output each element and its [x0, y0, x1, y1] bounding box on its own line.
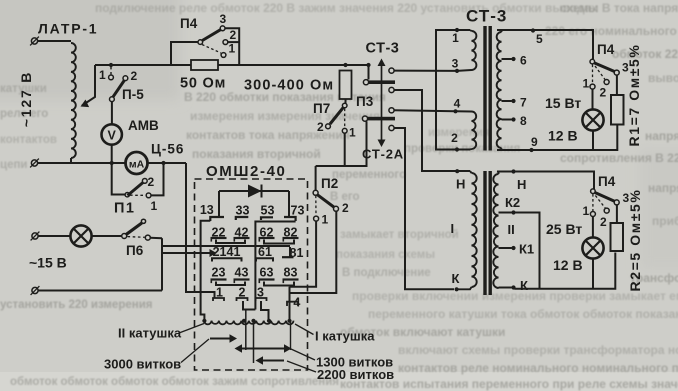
svg-text:7: 7 [520, 96, 527, 110]
node tap 9 [529, 148, 533, 152]
svg-text:12 В: 12 В [548, 128, 578, 144]
relay coil terminal 4 [287, 296, 300, 310]
svg-text:схемы В тока напряжения: схемы В тока напряжения [560, 1, 678, 15]
coil dimension line b [253, 321, 255, 363]
relay coil terminal 3 [256, 286, 267, 302]
svg-text:ОМШ2-40: ОМШ2-40 [206, 163, 286, 180]
wire terminal 2 to coil [243, 301, 255, 350]
svg-text:выводах: выводах [648, 71, 678, 85]
label 1 (tap) [452, 31, 459, 45]
svg-text:V: V [108, 129, 117, 143]
П3 right contact d [389, 125, 394, 130]
wire secondary top rail (tap 5) [497, 30, 593, 59]
label 3 (П4 R2) [623, 191, 630, 205]
label 50 Ом [180, 76, 226, 92]
label 2 (П4 top) [230, 28, 237, 42]
svg-text:3: 3 [452, 57, 459, 71]
label 1300 витков [235, 344, 394, 369]
label 5 (tap) [536, 32, 543, 46]
label СТ-3 (transformer) [466, 7, 507, 26]
tap К bottom [499, 285, 516, 289]
node tap 1 [455, 28, 459, 32]
relay coil terminal 1 [213, 286, 224, 302]
label П3 [356, 94, 374, 109]
wire П3-b down to lower trans H [394, 90, 470, 171]
relay contact 13 [200, 203, 224, 221]
svg-text:П4: П4 [597, 42, 615, 57]
svg-text:2: 2 [600, 86, 607, 100]
node K left [455, 287, 459, 291]
wire П-5 to voltmeter [111, 102, 113, 124]
relay contact 53 [261, 204, 275, 221]
relay contact 43 [234, 266, 250, 284]
wire мА node to relay coil [186, 163, 215, 298]
svg-text:R1=7 Ом±5%: R1=7 Ом±5% [626, 44, 642, 147]
label I (winding) [451, 221, 455, 236]
wire П4 to lamp HL2 [592, 89, 594, 109]
label I катушка [295, 324, 375, 344]
node H right [511, 169, 515, 173]
svg-text:П6: П6 [126, 243, 144, 258]
relay contact 63 [259, 266, 275, 284]
switch П3 bridge bar 1 [363, 80, 395, 85]
svg-text:2: 2 [317, 120, 324, 134]
СТ-3 primary outer loop [436, 30, 470, 150]
label СТ-2А (П3 down position) [362, 147, 404, 162]
wire main top node [95, 64, 369, 66]
svg-text:I катушка: I катушка [315, 329, 375, 344]
svg-text:2141: 2141 [213, 245, 241, 259]
svg-text:СТ-3: СТ-3 [466, 7, 507, 26]
resistor 50 Ом [191, 60, 218, 70]
svg-text:измерения: измерения [428, 127, 490, 139]
relay contact 73 [284, 204, 304, 222]
svg-text:измерения измерения значения: измерения измерения значения [190, 109, 380, 123]
wire terminal 3 to coil [261, 301, 269, 321]
relay bridge 62-82 [264, 240, 294, 244]
svg-text:СТ-3: СТ-3 [366, 41, 400, 57]
wire bottom rail ЛАТР [38, 158, 126, 163]
label 9 (tap) [531, 135, 538, 149]
terminal X1 (~127V top) [30, 37, 39, 46]
resistor R1 [611, 95, 624, 125]
label К (winding I) [452, 271, 460, 286]
svg-text:обмоток обмоток обмоток обмото: обмоток обмоток обмоток обмоток зажим со… [10, 376, 339, 388]
switch П3 bridge bar 2 [362, 116, 395, 121]
tap К1 [499, 246, 516, 250]
tap 6 [502, 57, 516, 61]
node H left [455, 169, 459, 173]
svg-text:23: 23 [212, 266, 226, 280]
svg-text:9: 9 [531, 135, 538, 149]
tap 8 [502, 117, 516, 121]
svg-text:1: 1 [99, 68, 106, 82]
svg-text:50 Ом: 50 Ом [180, 76, 226, 92]
label 1 (П4 top) [229, 42, 236, 56]
wire К2 down [514, 213, 540, 289]
label П7 [313, 101, 330, 116]
svg-text:2: 2 [451, 131, 458, 145]
wire X3 to lamp [38, 235, 71, 237]
svg-text:подключение реле обмоток 220 В: подключение реле обмоток 220 В зажим зна… [95, 1, 598, 15]
svg-text:мА: мА [129, 158, 145, 170]
wire contact 13 to relay coil [201, 221, 211, 320]
svg-text:напряжения: напряжения [645, 129, 678, 143]
label 15 Вт [545, 95, 581, 111]
lower transformer winding II [493, 172, 498, 289]
ЛАТР wiper arrow [81, 65, 96, 107]
label ЛАТР-1 [38, 21, 98, 37]
node мА-П1 junction [161, 161, 165, 165]
svg-text:переменного катушки тока обмот: переменного катушки тока обмоток обмоток… [368, 307, 678, 321]
П3 right contact c [389, 108, 394, 113]
svg-text:прибора: прибора [652, 214, 678, 228]
label 1 (П2) [322, 213, 329, 227]
wire П3-a to tap 3 [394, 70, 457, 72]
label 3 (П4 top) [220, 12, 227, 26]
svg-text:1: 1 [349, 126, 356, 140]
label 7 (tap) [520, 96, 527, 110]
switch П2 [313, 166, 338, 221]
svg-text:1: 1 [322, 213, 329, 227]
wire lamp HL3 to rail [592, 259, 594, 289]
svg-text:2: 2 [148, 175, 155, 189]
label П2 [321, 176, 338, 191]
svg-text:2: 2 [230, 28, 237, 42]
svg-text:2: 2 [600, 215, 607, 229]
svg-text:13: 13 [200, 203, 214, 217]
svg-text:1: 1 [583, 204, 590, 218]
svg-text:2: 2 [342, 201, 349, 215]
label К1 [519, 242, 534, 257]
tap К2 [499, 210, 516, 214]
label Н (winding II) [517, 177, 526, 192]
relay contact 21 41 [212, 245, 242, 262]
svg-text:1: 1 [452, 31, 459, 45]
svg-text:R2=5 Ом±5%: R2=5 Ом±5% [627, 189, 643, 292]
svg-text:К: К [520, 278, 528, 293]
label П-5 [122, 87, 144, 102]
label 3000 витков [104, 334, 237, 371]
svg-text:1: 1 [229, 42, 236, 56]
svg-text:12 В: 12 В [553, 257, 583, 273]
СТ-3 core [485, 26, 490, 151]
svg-text:включают схемы проверки трансф: включают схемы проверки трансформатора н… [398, 343, 678, 357]
label Ц-56 [151, 142, 184, 157]
svg-text:73: 73 [291, 204, 305, 218]
relay contact 82 [283, 226, 299, 242]
wire П6 to relay contact 81 [162, 245, 290, 247]
svg-text:II катушка: II катушка [118, 326, 182, 341]
svg-text:П7: П7 [313, 101, 330, 116]
wire П6 riser [161, 238, 163, 290]
label 1 (П4 R1) [583, 77, 590, 91]
СТ-3 primary winding section 4-2 [456, 111, 477, 149]
switch П1 [112, 163, 164, 198]
node tap 4 [453, 109, 457, 113]
СТ-3 secondary winding [497, 30, 502, 150]
svg-text:обмоток 220: обмоток 220 [612, 47, 678, 61]
wire П4 to lamp HL3 [592, 217, 594, 238]
switch П4 (50 Ом bypass) [171, 26, 239, 65]
relay contact 33 [236, 204, 250, 221]
lamp HL2 (15 Вт 12 В) [582, 109, 603, 130]
label 2200 витков [256, 356, 395, 382]
relay contact 83 [283, 266, 299, 284]
label 2 (П4 R1) [600, 86, 607, 100]
label 2 (П2) [342, 201, 349, 215]
relay box (dashed) [195, 179, 308, 370]
svg-text:П1: П1 [114, 201, 136, 217]
voltmeter АМВ (V) [102, 124, 122, 144]
label СТ-3 (П3 up position) [366, 41, 400, 57]
relay coil winding (wavy) [202, 319, 293, 325]
label 1 (П-5) [99, 68, 106, 82]
coil dimension line c [290, 322, 292, 350]
label 3 (П4 R1) [622, 61, 629, 75]
svg-text:33: 33 [236, 204, 250, 218]
svg-text:300-400 Ом: 300-400 Ом [244, 78, 334, 94]
svg-text:показания схемы: показания схемы [336, 249, 435, 261]
svg-text:ЛАТР-1: ЛАТР-1 [38, 21, 98, 37]
svg-text:6: 6 [520, 54, 527, 68]
svg-text:83: 83 [284, 266, 298, 280]
svg-text:П3: П3 [356, 94, 374, 109]
relay contact 62 [259, 226, 275, 242]
svg-text:установить 220 измерения: установить 220 измерения [0, 299, 152, 311]
label 1 (П4 R2) [583, 204, 590, 218]
svg-text:5: 5 [536, 32, 543, 46]
svg-text:3000 витков: 3000 витков [104, 357, 181, 372]
relay bridge 23-43 [216, 282, 245, 286]
label R2=5 Ом±5% [627, 189, 643, 292]
svg-text:замыкает вторичной: замыкает вторичной [340, 229, 459, 241]
label 2 (tap) [451, 131, 458, 145]
svg-text:К1: К1 [519, 242, 534, 257]
label II (winding) [508, 222, 515, 237]
СТ-3 primary winding section 1-3 [457, 30, 476, 71]
switch П7 [326, 99, 348, 166]
label 25 Вт [546, 221, 582, 237]
П3 right contact a [389, 68, 394, 73]
svg-text:15 Вт: 15 Вт [545, 95, 581, 111]
wire lamp HL2 to rail [592, 131, 594, 150]
wire П2 contact 1 to relay [290, 221, 317, 302]
svg-text:1: 1 [583, 77, 590, 91]
label 6 (tap) [520, 54, 527, 68]
node main-П5 junction [109, 63, 113, 67]
diode VD1 [219, 185, 289, 198]
svg-text:3: 3 [220, 12, 227, 26]
relay contact 23 [211, 266, 227, 284]
label 1 (П1) [151, 199, 158, 213]
svg-text:К2: К2 [505, 195, 520, 210]
svg-text:Н: Н [517, 177, 526, 192]
svg-text:I: I [451, 221, 455, 236]
svg-text:2200 витков: 2200 витков [317, 367, 394, 382]
svg-text:контактов реле номинального но: контактов реле номинального номинального… [398, 361, 678, 375]
svg-text:Ц-56: Ц-56 [151, 142, 184, 157]
terminal X2 (~127V bottom) [30, 159, 39, 168]
svg-text:П-5: П-5 [122, 87, 144, 102]
wire voltmeter to bottom rail [111, 145, 113, 163]
svg-text:контактов: контактов [0, 134, 57, 146]
label Н (winding I) [456, 177, 465, 192]
wire winding II bottom rail [514, 253, 616, 289]
wire П2 contact 2 to relay [290, 211, 337, 293]
П3 right contact b [389, 87, 394, 92]
label 2 (П-5) [131, 69, 138, 83]
label К (winding II) [520, 278, 528, 293]
svg-text:П4: П4 [180, 16, 198, 31]
label 2 (П4 R2) [600, 215, 607, 229]
node tap 3 [455, 69, 459, 73]
terminal X4 (~15V bottom) [31, 286, 40, 295]
svg-text:П2: П2 [321, 176, 338, 191]
label 8 (tap) [520, 114, 527, 128]
wire П3 lower-left node [316, 121, 367, 166]
lamp HL3 (25 Вт 12 В) [582, 237, 603, 258]
label ОМШ2-40 [206, 163, 286, 180]
autotransformer ЛАТР-1 coil [71, 43, 76, 158]
wire П3 top-left to main [366, 63, 370, 80]
label 1 (П7) [349, 126, 356, 140]
label 12 В [548, 128, 578, 144]
label 12 В [553, 257, 583, 273]
lower transformer winding I [457, 171, 477, 289]
tap 7 [502, 99, 516, 103]
svg-text:53: 53 [261, 204, 275, 218]
relay contact 61 [256, 245, 273, 262]
svg-text:1: 1 [151, 199, 158, 213]
lower transformer core [485, 171, 490, 295]
svg-text:61: 61 [258, 245, 272, 259]
wire мА to node [148, 162, 187, 164]
node tap 2 [455, 147, 459, 151]
label П1 [114, 201, 136, 217]
resistor R2 [611, 223, 624, 251]
label 4 (tap) [454, 97, 461, 111]
svg-text:цепи: цепи [0, 159, 27, 171]
svg-text:~127 В: ~127 В [18, 71, 34, 127]
switch П4 (R1 selector) [590, 59, 619, 95]
relay bridge 63-83 [264, 282, 294, 286]
label АМВ [128, 118, 159, 133]
label R1=7 Ом±5% [626, 44, 642, 147]
terminal X3 (~15V top) [31, 232, 40, 241]
label 300-400 Ом [244, 78, 334, 94]
wire П3-c to tap 4 [394, 110, 455, 111]
wire winding II top rail [497, 172, 594, 190]
node main-R junction [343, 63, 347, 67]
label П4 (top) [180, 16, 198, 31]
wire П6 to relay contact 21 [162, 249, 217, 257]
svg-text:2: 2 [131, 69, 138, 83]
relay contact 42 [234, 226, 250, 242]
svg-text:В подключение: В подключение [342, 267, 431, 279]
wire П3-d to lower trans K [394, 128, 454, 289]
milliammeter Ц-56 (мА) [126, 152, 148, 174]
svg-text:8: 8 [520, 114, 527, 128]
label 2 (П1) [148, 175, 155, 189]
wire diode to contact 73 [288, 191, 290, 217]
label 2 (П7) [317, 120, 324, 134]
svg-text:К: К [452, 271, 460, 286]
svg-text:СТ-2А: СТ-2А [362, 147, 404, 162]
node V-rail junction [110, 161, 114, 165]
svg-text:4: 4 [454, 97, 461, 111]
wire X4 to П6 riser [38, 290, 162, 292]
node tap 5 [531, 28, 535, 32]
svg-text:~15 В: ~15 В [29, 255, 67, 271]
relay coil terminal 2 [237, 286, 248, 302]
svg-text:Н: Н [456, 177, 465, 192]
wire terminal 4 to coil [289, 302, 291, 320]
label 3 (tap) [452, 57, 459, 71]
signal lamp HL1 [70, 225, 91, 246]
label ~15 В [29, 255, 67, 271]
switch П4 (R2 selector) [590, 189, 619, 223]
svg-text:показания вторичной: показания вторичной [192, 147, 321, 161]
svg-text:напряжение: напряжение [648, 181, 678, 195]
label П4 (R2) [598, 174, 616, 189]
label П6 [126, 243, 144, 258]
relay bridge 22-42 [216, 240, 245, 244]
relay contact 81 [282, 246, 303, 260]
svg-text:контактов тока напряжения: контактов тока напряжения [186, 128, 350, 142]
svg-text:сопротивления В 220: сопротивления В 220 [560, 151, 678, 165]
svg-text:П4: П4 [598, 174, 616, 189]
relay contact 22 [211, 226, 227, 242]
wire secondary bottom rail (tap 9) [497, 125, 617, 151]
label П4 (R1) [597, 42, 615, 57]
resistor 300-400 Ом [340, 71, 352, 100]
svg-text:переменного: переменного [332, 169, 406, 181]
wire diode to contact 13 [218, 191, 220, 217]
svg-text:63: 63 [260, 266, 274, 280]
svg-text:АМВ: АМВ [128, 118, 159, 133]
switch П3 actuator [378, 59, 386, 148]
wire lamp to П6 [92, 235, 122, 237]
svg-text:25 Вт: 25 Вт [546, 221, 582, 237]
wire contact 73 to relay coil [255, 222, 295, 310]
svg-text:II: II [508, 222, 515, 237]
wire X1 to ЛАТР coil [38, 40, 72, 42]
switch П6 [122, 219, 162, 240]
label К2 [505, 195, 520, 210]
label II катушка [118, 324, 204, 341]
svg-text:43: 43 [235, 266, 249, 280]
label ~127 В [18, 71, 34, 127]
switch П-5 [109, 67, 128, 102]
